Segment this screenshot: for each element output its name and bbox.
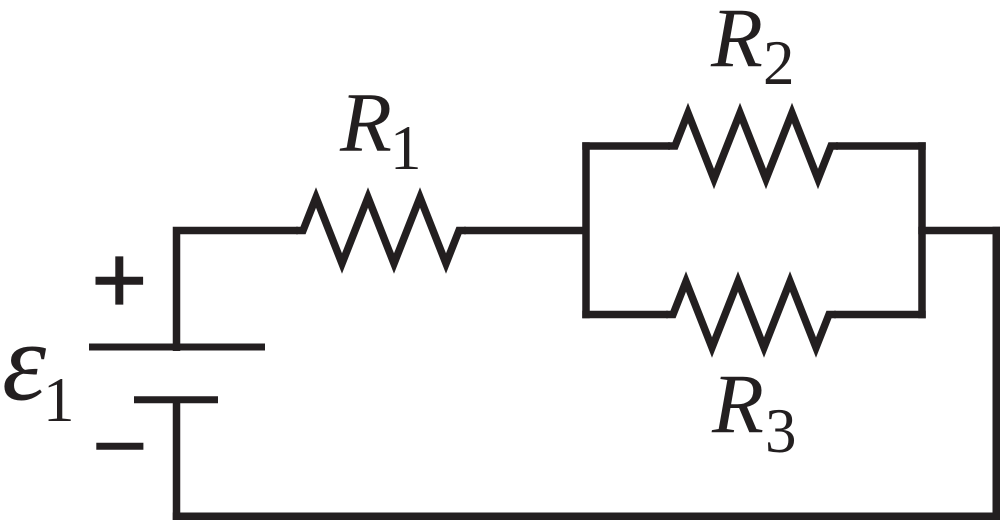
svg-text:3: 3 [765, 396, 797, 466]
minus sign [96, 443, 143, 450]
label R2 [710, 0, 795, 98]
label R3 [711, 358, 797, 467]
wire parallel box left vertical [582, 142, 590, 318]
battery E1 negative plate (short) [134, 396, 218, 403]
wire from battery + terminal up and right to R1 [177, 231, 299, 352]
wire R1 to parallel box (node A) [464, 227, 586, 235]
wire R2 top-left lead [582, 142, 670, 150]
svg-text:R: R [339, 76, 392, 170]
wire R2 top-right lead [836, 142, 926, 150]
resistor R1 [296, 198, 466, 264]
svg-text:1: 1 [43, 365, 75, 435]
plus sign [96, 256, 144, 304]
wire R3 bottom-left lead [582, 311, 668, 319]
wire right outer vertical [993, 227, 1000, 520]
wire battery - terminal down to bottom return [173, 399, 181, 520]
battery E1 positive plate (long) [89, 344, 265, 351]
wire R3 bottom-right lead [834, 311, 926, 319]
svg-text:1: 1 [390, 113, 422, 183]
svg-text:2: 2 [763, 28, 795, 98]
wire parallel box right vertical [918, 142, 926, 318]
svg-text:R: R [711, 358, 764, 452]
resistor R3 [666, 282, 836, 348]
wire bottom return [173, 513, 1000, 520]
svg-text:R: R [710, 0, 763, 86]
wire parallel box to right edge (node B) [918, 227, 1000, 235]
label R1 [339, 76, 422, 183]
svg-text:ε: ε [2, 301, 47, 425]
resistor R2 [668, 113, 838, 179]
label E1 (EMF source) [2, 301, 75, 436]
